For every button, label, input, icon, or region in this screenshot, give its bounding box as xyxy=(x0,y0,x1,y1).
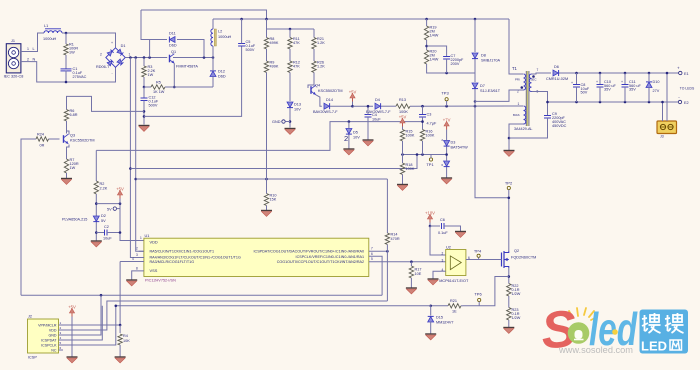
wire L1 to bridge top xyxy=(62,33,116,48)
wire source sense xyxy=(463,277,509,306)
svg-text:15K: 15K xyxy=(270,198,277,202)
svg-text:BAT54TW: BAT54TW xyxy=(451,146,469,150)
svg-text:ICSPCLK: ICSPCLK xyxy=(41,343,57,347)
resistor R16 xyxy=(420,130,424,142)
capacitor C2 xyxy=(96,232,104,234)
rail sense to D15 xyxy=(431,305,448,307)
ground under VSS xyxy=(126,279,137,281)
pin 1 L xyxy=(21,51,31,53)
wire AC L input xyxy=(31,33,44,52)
inductor L1 xyxy=(44,31,62,33)
ground under D2 xyxy=(91,240,102,242)
resistor R24 xyxy=(49,138,60,140)
svg-text:100K: 100K xyxy=(406,134,415,138)
diode D7 blocking xyxy=(474,73,476,82)
svg-text:1/2W: 1/2W xyxy=(512,292,521,296)
svg-text:N: N xyxy=(33,57,36,61)
ground under C12 xyxy=(139,125,150,127)
svg-text:U2: U2 xyxy=(446,245,451,249)
svg-text:450VDC: 450VDC xyxy=(552,124,567,128)
svg-text:+5V: +5V xyxy=(399,115,407,120)
svg-text:2.2K: 2.2K xyxy=(100,187,108,191)
svg-text:TP3: TP3 xyxy=(441,91,449,96)
svg-text:D5: D5 xyxy=(353,131,358,135)
wire J2 pin1 MCLR xyxy=(63,324,120,326)
rail feedback mid xyxy=(401,154,447,156)
svg-text:MCP6141T-E/OT: MCP6141T-E/OT xyxy=(439,279,469,283)
svg-text:35V: 35V xyxy=(604,88,611,92)
rail tops divider xyxy=(266,19,268,38)
connector J2 ICSP xyxy=(28,319,59,353)
svg-text:GND: GND xyxy=(272,120,281,124)
svg-text:6: 6 xyxy=(60,346,62,350)
diode D15 zener xyxy=(430,306,432,316)
wire L2 bottom xyxy=(212,46,214,58)
svg-text:1W: 1W xyxy=(70,166,76,170)
svg-text:L1: L1 xyxy=(44,24,48,28)
svg-text:SMBJ170A: SMBJ170A xyxy=(481,59,500,63)
diode D14 xyxy=(324,103,329,109)
wire Q1 emitter xyxy=(173,63,175,87)
svg-text:Q4: Q4 xyxy=(315,84,320,88)
ground under C4 xyxy=(363,139,374,141)
svg-text:Q2: Q2 xyxy=(514,249,519,253)
svg-text:TP2: TP2 xyxy=(505,180,513,185)
svg-text:8: 8 xyxy=(136,266,138,270)
svg-text:2: 2 xyxy=(100,52,102,56)
svg-text:NC: NC xyxy=(51,348,57,352)
ground under R4 xyxy=(119,345,121,357)
transistor Q3 xyxy=(66,121,68,134)
svg-text:RD06-T: RD06-T xyxy=(96,65,110,69)
svg-text:J3: J3 xyxy=(660,135,664,139)
svg-text:KSC5502DTM: KSC5502DTM xyxy=(70,138,94,142)
power +10V opamp xyxy=(429,217,431,223)
diode D5 zener xyxy=(346,129,352,134)
wire to R6 xyxy=(67,96,145,111)
wire sense column B xyxy=(136,58,144,252)
svg-text:1: 1 xyxy=(60,321,62,325)
terminal E2 xyxy=(678,100,681,103)
svg-text:+: + xyxy=(571,81,573,85)
resistor R8 xyxy=(264,38,268,50)
pin VSS wire to ground xyxy=(132,271,144,280)
resistor R10 xyxy=(266,179,268,194)
svg-text:ICSPCLK/VREF/C1IN0-/C1IN0-/AN1: ICSPCLK/VREF/C1IN0-/C1IN0-/AN1/RA1 xyxy=(296,255,364,259)
svg-text:E2: E2 xyxy=(684,101,689,105)
svg-text:1: 1 xyxy=(129,52,131,56)
svg-text:+5V: +5V xyxy=(68,305,76,310)
svg-text:BIAS: BIAS xyxy=(513,113,520,117)
wire T1 primary bottom xyxy=(475,90,524,101)
wire Q2 source xyxy=(508,268,510,284)
resistor R18 xyxy=(402,155,404,164)
capacitor C3 xyxy=(422,106,424,114)
svg-text:+5V: +5V xyxy=(349,90,357,95)
svg-text:VPP/MCLR: VPP/MCLR xyxy=(38,323,57,327)
resistor R19 xyxy=(426,19,428,26)
svg-text:TP4: TP4 xyxy=(474,248,482,253)
svg-text:100K: 100K xyxy=(426,134,435,138)
diode D12 xyxy=(210,71,216,76)
ground under D3 xyxy=(441,177,452,179)
svg-text:GND: GND xyxy=(49,333,57,337)
diode D3 lower xyxy=(444,161,450,166)
svg-text:SEC: SEC xyxy=(531,78,537,82)
svg-text:L2: L2 xyxy=(218,29,222,33)
wire opamp output xyxy=(466,259,500,261)
resistor R23 xyxy=(507,308,511,321)
resistor R17 xyxy=(409,266,413,278)
svg-text:D6D: D6D xyxy=(218,75,226,79)
svg-text:D6D: D6D xyxy=(169,44,177,48)
ground J2 xyxy=(67,356,78,358)
svg-text:470R: 470R xyxy=(391,237,400,241)
resistor R1 xyxy=(65,33,67,44)
resistor R21 sense xyxy=(448,304,461,308)
wire sense column A xyxy=(130,58,144,258)
transistor Q4 xyxy=(308,73,314,89)
svg-text:3: 3 xyxy=(60,331,62,335)
power +5V R15 xyxy=(402,121,404,127)
svg-text:1/2W: 1/2W xyxy=(512,316,521,320)
wire Q3 collector xyxy=(67,121,70,135)
wire C1 to N rail xyxy=(65,71,67,83)
rail E2 output xyxy=(548,101,679,103)
IC U1 PIC12HV752 xyxy=(144,238,369,276)
svg-text:100K: 100K xyxy=(406,167,415,171)
svg-text:CMR1U-02M: CMR1U-02M xyxy=(546,77,568,81)
svg-text:RA5/CLKIN/T1CKI/C1IN1-/COG1OUT: RA5/CLKIN/T1CKI/C1IN1-/COG1OUT1 xyxy=(150,250,215,254)
resistor R11 xyxy=(289,29,291,38)
wire rail B to T1 primary xyxy=(509,19,523,74)
wire bias bottom to ground xyxy=(509,124,524,150)
resistor R22 xyxy=(507,284,511,297)
svg-text:BAV20WS-7-F: BAV20WS-7-F xyxy=(313,110,338,114)
capacitor C12 xyxy=(143,87,145,98)
node under C12 xyxy=(143,101,145,125)
wire R14 bottom xyxy=(386,245,388,302)
svg-text:R2: R2 xyxy=(100,182,105,186)
diode D13 zener xyxy=(289,73,291,102)
svg-text:499K: 499K xyxy=(270,41,279,45)
capacitor C5 xyxy=(238,43,245,45)
svg-text:2: 2 xyxy=(60,326,62,330)
resistor R20 xyxy=(424,50,428,64)
rail C xyxy=(130,155,417,169)
svg-text:6.8R: 6.8R xyxy=(70,113,78,117)
svg-text:500V: 500V xyxy=(246,48,255,52)
svg-text:ICSPDAT/COG1OUT/DACOUT/FVROUT/: ICSPDAT/COG1OUT/DACOUT/FVROUT/C1IN0+/C1I… xyxy=(254,250,364,254)
resistor R13 xyxy=(396,104,410,108)
rail sense to J2 xyxy=(63,306,431,345)
svg-text:10E: 10E xyxy=(415,272,422,276)
svg-text:+: + xyxy=(677,66,680,71)
resistor R5 xyxy=(144,86,151,88)
node R3 bottom xyxy=(143,77,145,87)
rail E1 output xyxy=(559,72,679,74)
svg-text:499K: 499K xyxy=(270,65,279,69)
connector J1 IEC inlet xyxy=(6,44,21,73)
svg-text:C4: C4 xyxy=(372,113,377,117)
power +7V Dpair xyxy=(446,124,448,130)
svg-text:47K: 47K xyxy=(293,65,300,69)
svg-text:1/4W: 1/4W xyxy=(430,34,439,38)
rail R2 feedback xyxy=(96,122,422,151)
svg-text:D15: D15 xyxy=(436,315,443,319)
svg-text:10V: 10V xyxy=(353,136,360,140)
power +5V arrow xyxy=(119,193,121,199)
svg-text:5V: 5V xyxy=(101,219,106,223)
transistor Q2 MOSFET xyxy=(501,253,503,267)
T1 primary winding xyxy=(524,74,526,90)
pin 2 N xyxy=(21,61,31,63)
svg-text:+10V: +10V xyxy=(425,211,435,216)
power +5V node D4 xyxy=(352,96,354,102)
node R1 top xyxy=(65,32,68,35)
svg-text:+: + xyxy=(621,80,623,84)
wire RA0 right xyxy=(369,250,388,252)
resistor R7 xyxy=(64,159,68,173)
svg-text:E1: E1 xyxy=(684,72,689,76)
ground under R10 xyxy=(266,206,268,211)
svg-text:TO LEDS: TO LEDS xyxy=(680,86,695,90)
svg-text:10K: 10K xyxy=(123,339,130,343)
svg-text:7: 7 xyxy=(537,68,539,72)
wire R20 bottom rail xyxy=(427,64,475,73)
resistor R2 xyxy=(95,150,97,181)
svg-text:TP1: TP1 xyxy=(426,162,434,167)
svg-text:200V: 200V xyxy=(451,62,460,66)
svg-text:-: - xyxy=(678,95,680,100)
resistor R21 xyxy=(313,29,315,38)
svg-text:50V: 50V xyxy=(581,91,588,95)
svg-text:D8: D8 xyxy=(481,54,486,58)
svg-text:FQD2N60CTM: FQD2N60CTM xyxy=(511,255,536,259)
resistor R15 xyxy=(402,127,404,130)
svg-text:J2: J2 xyxy=(28,315,32,319)
test point TP1 xyxy=(429,158,432,161)
svg-text:T1: T1 xyxy=(512,66,518,71)
resistor R6 xyxy=(64,110,68,122)
svg-text:PIC12HV752-I/SN: PIC12HV752-I/SN xyxy=(145,278,176,282)
svg-text:3: 3 xyxy=(442,259,444,263)
svg-text:10uF: 10uF xyxy=(103,237,112,241)
diode D10 zener xyxy=(648,73,650,81)
wire Q2 drain to transformer xyxy=(475,101,509,251)
capacitor C7 xyxy=(427,46,447,57)
svg-text:27V: 27V xyxy=(653,89,660,93)
wire MCLR from J2 xyxy=(120,261,144,263)
svg-text:KSC5502DTM: KSC5502DTM xyxy=(318,89,342,93)
ground under R18 xyxy=(402,175,404,185)
svg-text:2: 2 xyxy=(136,247,138,251)
rail D xyxy=(136,178,388,180)
rail 5V aux xyxy=(410,105,523,107)
svg-text:Q1: Q1 xyxy=(171,50,176,54)
svg-text:10uF: 10uF xyxy=(372,118,381,122)
svg-text:D7: D7 xyxy=(480,84,485,88)
svg-text:3: 3 xyxy=(136,253,138,257)
diode D6 xyxy=(553,70,558,76)
svg-text:35V: 35V xyxy=(629,88,636,92)
wire R9 down xyxy=(266,73,268,194)
svg-text:RA3/MCLR/COG1FLT/T1G: RA3/MCLR/COG1FLT/T1G xyxy=(150,260,195,264)
svg-text:2: 2 xyxy=(441,138,443,142)
svg-text:D12: D12 xyxy=(218,70,225,74)
svg-text:D13: D13 xyxy=(294,103,301,107)
svg-text:6: 6 xyxy=(371,252,373,256)
svg-text:C6: C6 xyxy=(440,218,445,222)
pin stubs J2 xyxy=(59,324,64,326)
svg-text:3A4429-AL: 3A4429-AL xyxy=(514,127,532,131)
svg-text:VDD: VDD xyxy=(150,240,158,245)
svg-text:4.7µF: 4.7µF xyxy=(427,122,437,126)
ground under D15 xyxy=(430,322,432,334)
svg-text:10V: 10V xyxy=(294,108,301,112)
ground under opamp xyxy=(428,278,439,280)
svg-text:D11: D11 xyxy=(169,31,176,35)
wire secondary bottom xyxy=(532,92,548,103)
svg-text:ICSPDAT: ICSPDAT xyxy=(41,338,57,342)
svg-text:100K: 100K xyxy=(399,110,408,114)
rail RA1 to J2 xyxy=(21,294,382,296)
svg-text:S1J-E3/61T: S1J-E3/61T xyxy=(480,89,501,93)
wire bridge output xyxy=(125,57,167,59)
svg-text:IEC 320-C8: IEC 320-C8 xyxy=(4,75,24,79)
node R2 bottom xyxy=(95,194,97,241)
pin 4 ground wire xyxy=(441,270,446,272)
svg-text:R17: R17 xyxy=(415,268,422,272)
svg-text:1: 1 xyxy=(140,236,142,240)
svg-text:5: 5 xyxy=(60,341,62,345)
watermark net glyph xyxy=(670,340,682,350)
rail A top left xyxy=(141,10,267,19)
capacitor C6 xyxy=(430,225,440,227)
watermark soled logo xyxy=(539,300,688,360)
resistor R4 xyxy=(118,334,122,345)
node R19 R20 xyxy=(426,40,428,50)
wire secondary top xyxy=(532,73,552,74)
svg-text:+: + xyxy=(596,80,598,84)
op-amp U2 xyxy=(430,226,446,255)
svg-text:COG1OUT0/CCP1OUT/C1OUT/T1CKI/I: COG1OUT0/CCP1OUT/C1OUT/T1CKI/INT/AN2/RA2 xyxy=(277,260,364,264)
wire Q4 emitter to D14 xyxy=(316,95,322,106)
resistor R14 xyxy=(386,179,388,233)
terminal E1 xyxy=(679,71,682,74)
svg-text:R21: R21 xyxy=(450,299,457,303)
resistor R26 xyxy=(313,49,315,61)
svg-text:+: + xyxy=(111,41,113,45)
svg-text:500V: 500V xyxy=(149,104,158,108)
diode D11 xyxy=(150,40,167,58)
svg-text:R5: R5 xyxy=(156,80,161,84)
ground under R17 xyxy=(410,278,412,288)
diode D3 dual BAT54 xyxy=(444,141,450,146)
capacitor C4 xyxy=(365,114,372,116)
ground under R23 xyxy=(508,320,510,327)
svg-text:+7V: +7V xyxy=(443,118,451,123)
svg-text:1: 1 xyxy=(518,102,520,106)
svg-text:J1: J1 xyxy=(11,39,15,43)
svg-text:2: 2 xyxy=(442,251,444,255)
svg-text:1W: 1W xyxy=(148,73,154,77)
svg-text:0.1uF: 0.1uF xyxy=(438,231,448,235)
svg-text:-: - xyxy=(112,71,114,75)
svg-text:TP6: TP6 xyxy=(474,291,482,296)
diode D2 zener xyxy=(93,216,99,221)
svg-text:7: 7 xyxy=(371,247,373,251)
svg-text:5: 5 xyxy=(371,257,373,261)
wire RA1 right xyxy=(369,256,382,295)
svg-text:D1: D1 xyxy=(121,44,126,48)
svg-text:FMMT458TA: FMMT458TA xyxy=(176,64,198,68)
svg-text:PRI: PRI xyxy=(515,78,520,82)
svg-text:2: 2 xyxy=(344,134,348,143)
wire AC N to bottom rail xyxy=(31,62,116,82)
svg-text:5V: 5V xyxy=(107,207,112,211)
svg-text:U1: U1 xyxy=(145,234,150,238)
capacitor C11 xyxy=(624,73,626,85)
capacitor C8 xyxy=(576,73,578,85)
svg-text:C2: C2 xyxy=(104,225,109,229)
ground T1 xyxy=(504,150,515,152)
svg-text:47K: 47K xyxy=(293,41,300,45)
wire rail to C5 bottom xyxy=(144,46,242,116)
ground under D13 xyxy=(285,128,296,130)
svg-text:6: 6 xyxy=(441,163,443,167)
svg-text:VSS: VSS xyxy=(150,268,158,273)
rail B HV bus xyxy=(213,18,509,20)
svg-text:LED: LED xyxy=(641,339,667,354)
svg-text:PLVA650A,215: PLVA650A,215 xyxy=(62,218,87,222)
svg-text:0R: 0R xyxy=(40,144,45,148)
svg-text:BAV20WS-7-F: BAV20WS-7-F xyxy=(366,110,391,114)
svg-text:www.sosoled.com: www.sosoled.com xyxy=(558,345,633,355)
capacitor C1 xyxy=(61,68,72,70)
svg-text:Q3: Q3 xyxy=(70,133,75,137)
capacitor C9 Y-cap xyxy=(547,102,549,116)
svg-text:D4: D4 xyxy=(375,98,380,102)
diode D8 TVS xyxy=(474,19,476,52)
ground under D5 xyxy=(343,148,354,150)
svg-text:MM3Z4V7: MM3Z4V7 xyxy=(436,320,454,324)
svg-text:C3: C3 xyxy=(427,113,432,117)
svg-text:D2: D2 xyxy=(101,214,106,218)
svg-text:ICSP: ICSP xyxy=(28,356,37,360)
svg-text:R24: R24 xyxy=(37,132,44,136)
svg-text:R4: R4 xyxy=(123,334,128,338)
inductor L2 xyxy=(212,19,214,29)
resistor R3 xyxy=(143,58,145,67)
connector J3 output xyxy=(657,121,677,134)
pin stubs left xyxy=(139,250,144,252)
svg-text:1K 1W: 1K 1W xyxy=(153,90,165,94)
svg-text:D10: D10 xyxy=(653,80,660,84)
capacitor C10 xyxy=(599,73,601,85)
svg-text:1/4W: 1/4W xyxy=(430,58,439,62)
svg-text:VDD: VDD xyxy=(49,328,57,332)
svg-text:L: L xyxy=(33,47,35,51)
svg-text:275VAC: 275VAC xyxy=(73,75,87,79)
wire top left corner xyxy=(141,10,150,40)
power +5V J2 xyxy=(71,311,73,317)
T1 secondary winding xyxy=(529,74,531,92)
svg-text:2: 2 xyxy=(27,57,29,61)
svg-text:R13: R13 xyxy=(399,98,406,102)
svg-text:D6: D6 xyxy=(554,65,559,69)
ground under C6 xyxy=(455,231,466,233)
